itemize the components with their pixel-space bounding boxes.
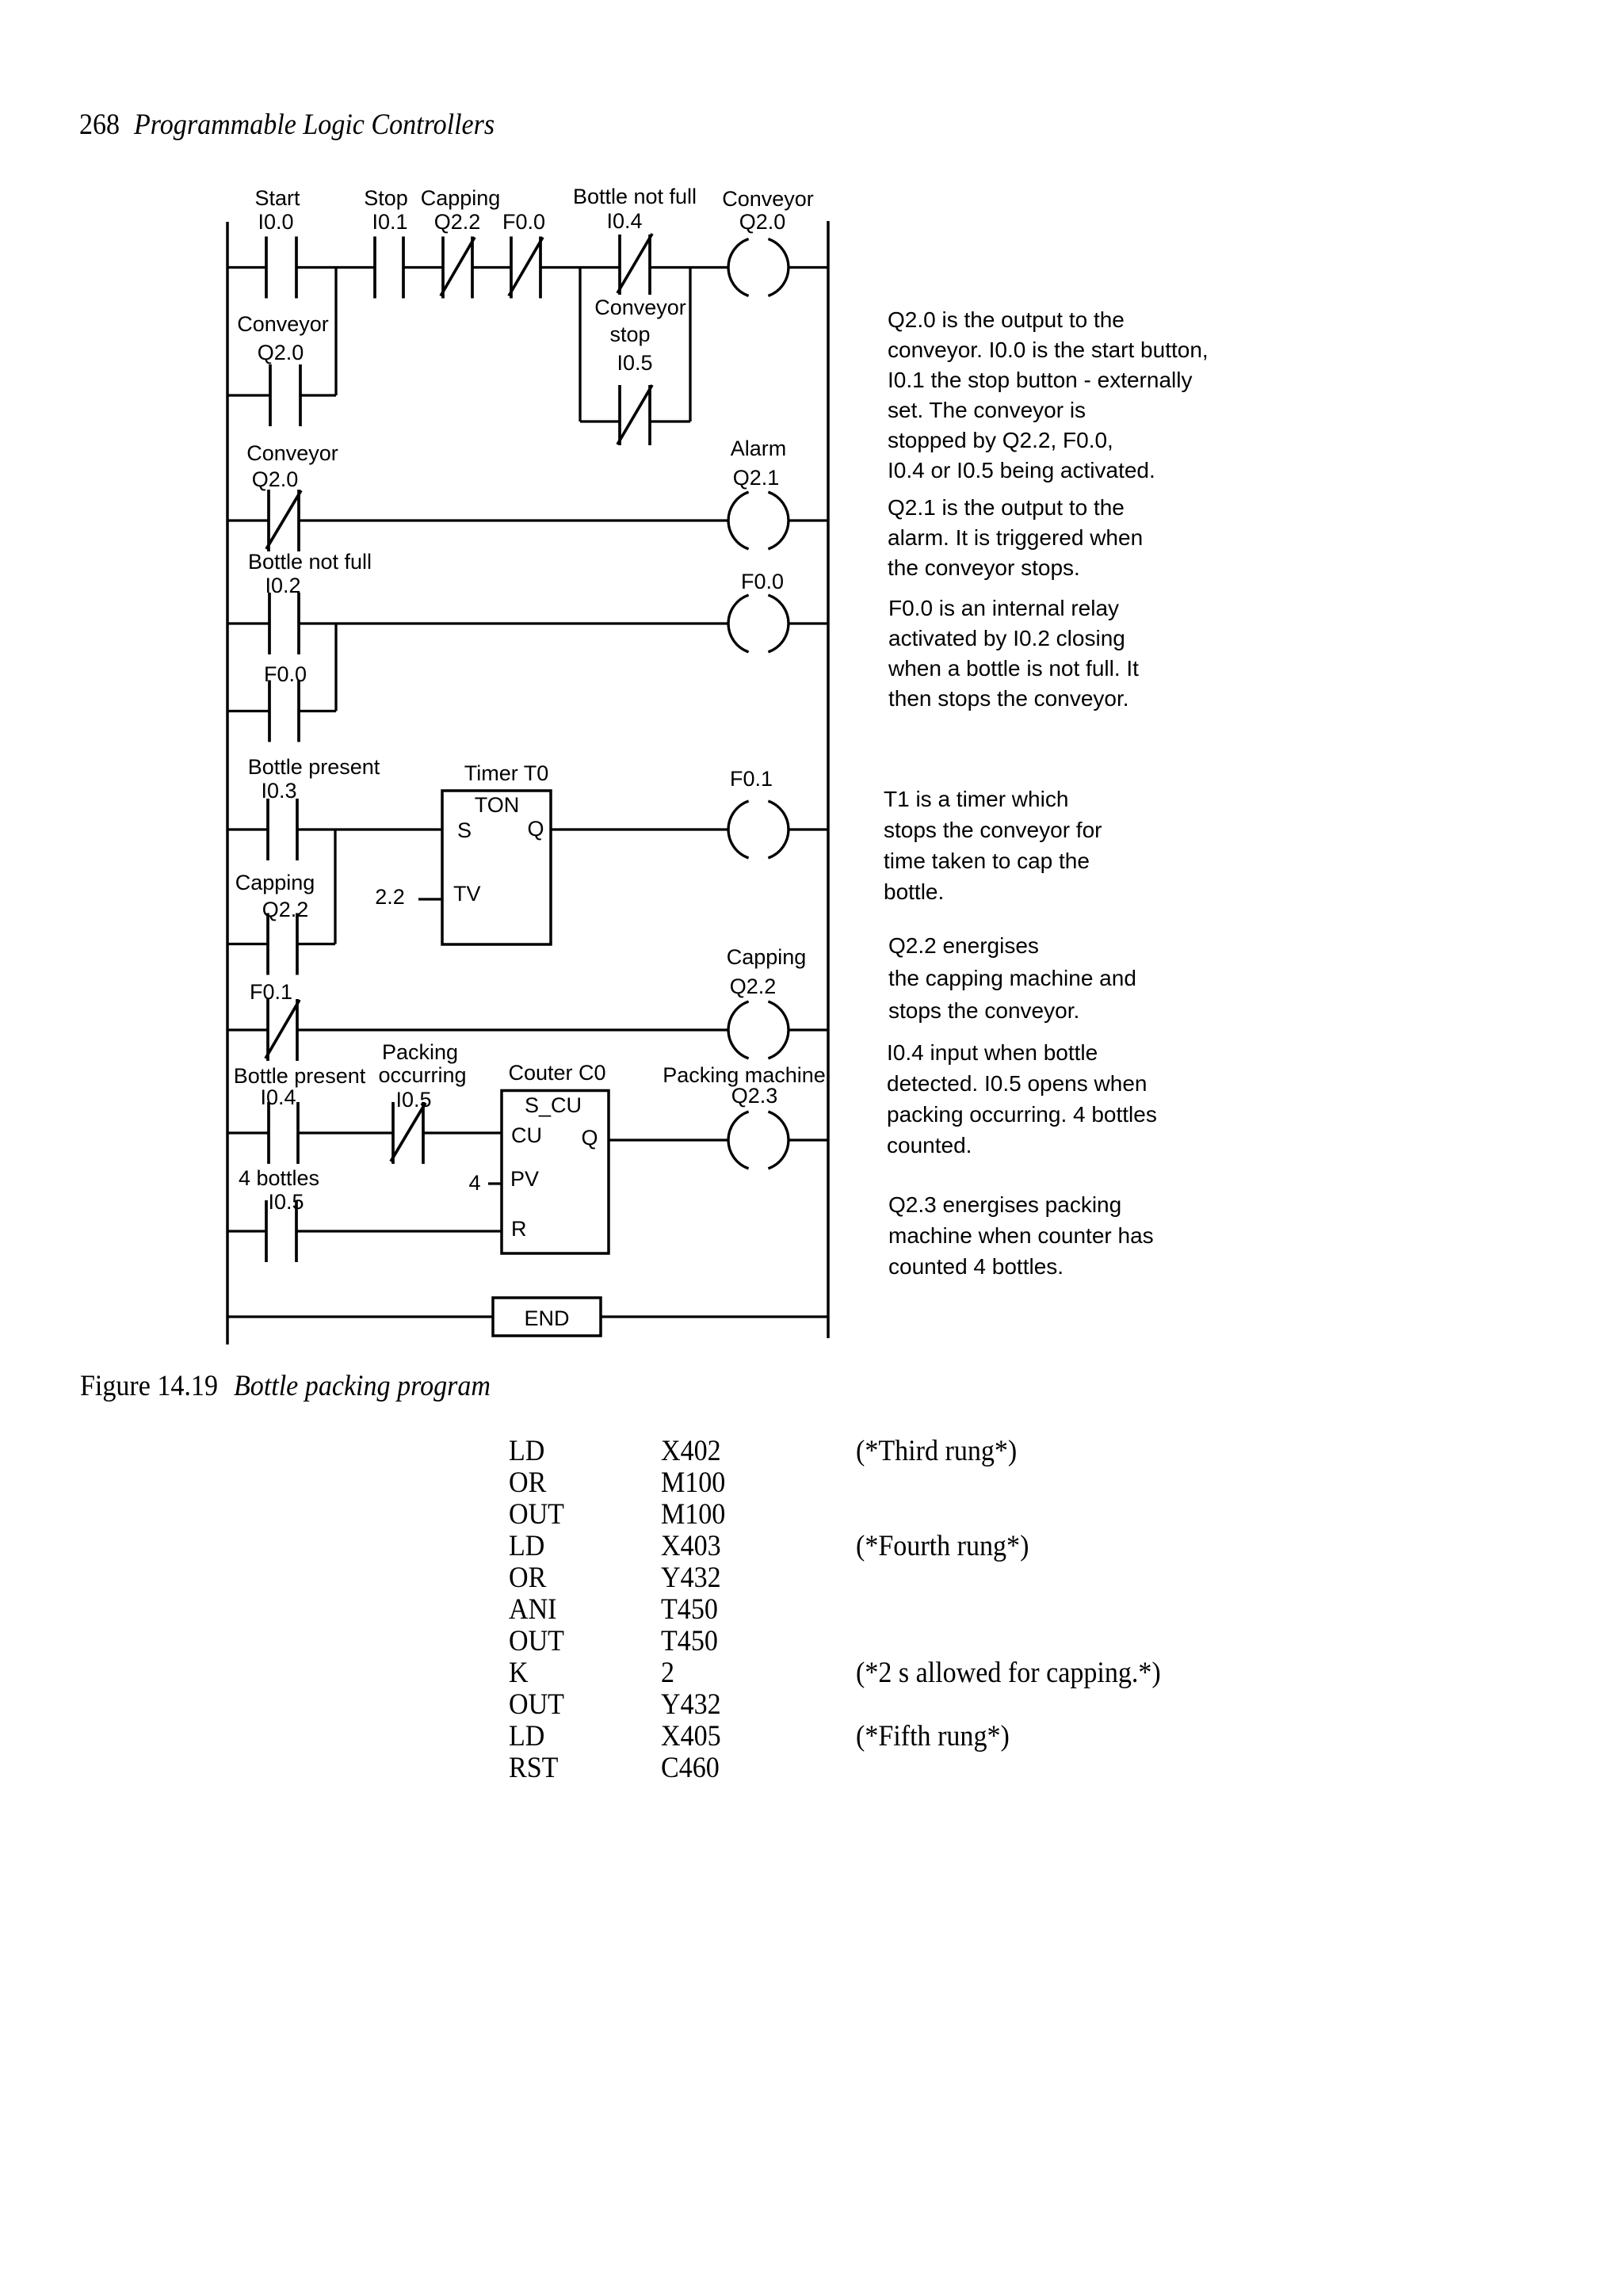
rung 6 reset branch wires (4 bottles I0.5 to R) [227,1230,266,1232]
contact Q2.2 Capping NC [441,237,475,299]
svg-text:occurring: occurring [378,1063,466,1087]
svg-text:stop: stop [609,322,650,346]
svg-text:Capping: Capping [235,871,315,894]
right power rail [827,221,830,1338]
coil Q2.0 Conveyor [728,239,789,296]
rung 6 wires [227,1131,269,1134]
ladder diagram [0,0,1623,1363]
svg-text:Q2.3: Q2.3 [731,1084,778,1108]
svg-text:R: R [511,1217,527,1241]
side notes column [0,0,1623,1]
coil F0.1 [728,801,789,858]
svg-text:TV: TV [453,882,481,906]
wire branch drop to F0.0 parallel contact [334,624,337,711]
wire branch drops around I0.5 parallel contact [579,268,581,422]
svg-text:Alarm: Alarm [731,437,787,460]
svg-text:Q2.1: Q2.1 [733,466,780,490]
contact I0.5 Conveyor stop NC [617,385,652,445]
svg-text:END: END [524,1306,569,1330]
rung 2 wires [227,519,269,521]
contact I0.1 Stop [375,237,403,299]
svg-text:Packing: Packing [382,1040,458,1064]
coil Q2.1 Alarm [728,492,789,549]
svg-text:Conveyor: Conveyor [722,187,814,211]
wire timer TV input stub [418,898,442,900]
svg-text:Q2.0: Q2.0 [252,467,299,491]
svg-text:Q2.0: Q2.0 [739,210,786,234]
note I0.4 [887,1037,1157,1161]
svg-text:2.2: 2.2 [375,885,405,909]
page header [0,0,1623,1]
contact I0.3 Bottle present [268,799,297,860]
wire branch drop to Q2.2 parallel contact [334,830,336,944]
contact I0.2 Bottle not full [269,593,299,654]
svg-text:I0.2: I0.2 [265,574,300,597]
svg-text:I0.3: I0.3 [261,779,296,803]
counter C0 box [502,1091,609,1254]
coil Q2.2 Capping [728,1001,789,1058]
svg-text:4 bottles: 4 bottles [239,1166,319,1190]
contact F0.0 NC [509,237,543,299]
svg-text:PV: PV [510,1167,539,1191]
svg-text:F0.1: F0.1 [730,767,773,791]
svg-text:Bottle not full: Bottle not full [248,550,372,574]
svg-text:Capping: Capping [421,186,501,210]
svg-text:Conveyor: Conveyor [237,312,329,336]
rung 4 parallel branch wires (Capping Q2.2 contact) [227,943,268,945]
svg-text:I0.5: I0.5 [617,351,652,375]
page number 268 [79,108,120,142]
rung 3 parallel branch wires (F0.0 seal-in) [227,710,269,712]
rung 4 wires [227,828,268,830]
svg-text:I0.1: I0.1 [372,210,407,234]
rung 3 wires [227,622,269,624]
svg-text:I0.4: I0.4 [260,1085,296,1109]
contact I0.4 Bottle present [269,1102,298,1164]
svg-text:F0.0: F0.0 [741,570,784,593]
wire timer Q output [551,828,728,830]
end rung wires [227,1315,493,1318]
END box [493,1298,601,1336]
svg-text:F0.0: F0.0 [502,210,545,234]
note Q2.1 [888,493,1143,583]
rung 1 parallel branch wires (Conveyor Q2.0 seal-in) [227,394,270,396]
rung 5 wires [227,1028,268,1031]
note Q2.0 [888,305,1209,486]
svg-text:F0.0: F0.0 [264,662,307,686]
contact Q2.0 Conveyor seal-in [270,364,300,426]
svg-text:I0.5: I0.5 [395,1088,431,1112]
svg-text:Timer T0: Timer T0 [464,761,549,785]
note F0.0 [888,593,1139,714]
svg-text:Q: Q [581,1126,598,1150]
coil Q2.3 Packing machine [728,1112,789,1169]
running head title [134,108,495,142]
figure caption [0,0,1623,1]
wire counter Q output [609,1138,728,1141]
svg-text:Q2.2: Q2.2 [262,898,309,921]
svg-text:Bottle not full: Bottle not full [573,185,697,208]
contact I0.0 Start [266,237,296,299]
svg-text:Q2.0: Q2.0 [258,341,304,364]
svg-text:Capping: Capping [727,945,807,969]
contact I0.5 4 bottles [266,1200,296,1262]
svg-text:CU: CU [511,1123,542,1147]
svg-text:F0.1: F0.1 [250,980,292,1004]
svg-text:Bottle present: Bottle present [234,1064,366,1088]
svg-text:Couter C0: Couter C0 [508,1061,605,1085]
wire branch drop to Q2.0 parallel contact [334,268,337,396]
contact I0.4 Bottle not full NC [617,234,652,295]
wire counter PV input stub [488,1182,502,1184]
note T1 [884,784,1102,907]
timer T0 box [442,791,551,944]
svg-text:S: S [457,818,472,842]
coil F0.0 internal relay [728,595,789,652]
svg-text:Q: Q [527,817,544,841]
note Q2.3 [888,1189,1154,1282]
contact I0.5 Packing occurring NC [391,1102,426,1164]
contact Q2.0 Conveyor NC [266,490,301,551]
instruction list program [0,0,1623,1]
svg-text:Stop: Stop [364,186,408,210]
svg-text:Conveyor: Conveyor [246,441,338,465]
svg-text:I0.5: I0.5 [268,1190,304,1214]
left power rail [226,222,229,1344]
svg-text:TON: TON [475,793,520,817]
note Q2.2 [888,929,1136,1027]
svg-text:Bottle present: Bottle present [248,755,380,779]
svg-text:Start: Start [254,186,300,210]
caption Figure 14.19 [80,1369,218,1403]
caption title [234,1369,491,1403]
svg-text:I0.0: I0.0 [258,210,293,234]
svg-text:4: 4 [468,1171,480,1195]
svg-text:I0.4: I0.4 [606,209,642,233]
svg-text:Q2.2: Q2.2 [730,974,777,998]
contact Q2.2 Capping parallel [268,913,297,975]
svg-text:S_CU: S_CU [525,1093,582,1117]
contact F0.0 seal-in [269,681,299,742]
rung 1 parallel branch wires (Conveyor stop I0.5) [580,420,620,422]
rung 1 wires [227,266,266,269]
svg-text:Conveyor: Conveyor [594,296,686,319]
svg-text:Q2.2: Q2.2 [434,210,481,234]
contact F0.1 NC [265,999,300,1061]
